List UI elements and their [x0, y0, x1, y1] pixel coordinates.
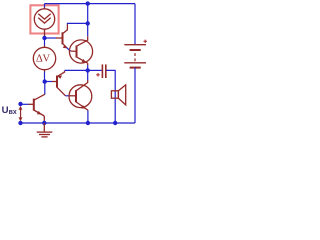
- svg-text:вх: вх: [9, 109, 17, 116]
- wire: battery bottom lead: [134, 68, 136, 123]
- wire: dV source to node B: [44, 72, 46, 82]
- wire: bottom rail: [21, 122, 136, 124]
- wire: node B to VT3 base: [45, 81, 53, 83]
- VT4 emitter arrow: [81, 105, 86, 109]
- VT3 emitter arrow (PNP, pointing into bar): [57, 75, 62, 78]
- node A (current source / dV / VT1 base junction): [42, 36, 46, 40]
- VT5 emitter arrow: [37, 111, 42, 115]
- transistor VT5 (NPN input, bottom left): [29, 94, 45, 121]
- wire: VT3 collector to VT4 base: [66, 95, 70, 97]
- wire: current source to node A: [44, 36, 46, 38]
- speaker BA1: [111, 85, 125, 105]
- current source G1 (circle with double chevron): [34, 7, 54, 36]
- selection highlight box around current source: [30, 5, 58, 33]
- wire: node B down to VT5 collector: [44, 82, 46, 95]
- input voltage double arrow: [19, 106, 23, 121]
- node: VT4 emitter / bottom rail junction: [86, 121, 90, 125]
- battery GB1 (two cells with dashes): [124, 45, 146, 68]
- node: speaker / bottom rail junction: [113, 121, 117, 125]
- capacitor C1 (electrolytic): [102, 64, 105, 78]
- wire: VT1 emitter to VT2 base: [67, 48, 71, 52]
- transistor VT3 (PNP driver, lower): [52, 71, 66, 96]
- wire: top rail: [45, 3, 136, 5]
- node B (dV / VT3 base / VT5 collector junction): [43, 79, 47, 83]
- ground: [37, 123, 53, 137]
- node: output (emitters/cap junction): [86, 68, 90, 72]
- VT1 emitter arrow: [63, 45, 68, 49]
- node: top rail junction: [86, 1, 90, 5]
- label: capacitor plus mark: [96, 73, 100, 77]
- wire: output node down to VT4 collector: [87, 70, 89, 80]
- svg-text:U: U: [2, 105, 9, 116]
- node: input terminal bottom (rail end): [18, 121, 22, 125]
- voltage source dV: [33, 46, 55, 72]
- wire: input to VT5 base: [21, 103, 29, 105]
- label: battery plus mark: [144, 40, 148, 43]
- transistor VT4 (NPN output, lower, circled): [69, 80, 92, 110]
- wire: VT3 emitter to output node: [65, 69, 88, 71]
- svg-text:ΔV: ΔV: [36, 53, 50, 64]
- wire: node A to VT1 base: [45, 37, 57, 39]
- node: input terminal top: [18, 102, 22, 106]
- wire: top rail down to VT2 collector: [87, 4, 89, 37]
- wire: VT4 emitter down to bottom rail: [87, 110, 89, 123]
- wire: current source top stub to top rail: [44, 4, 46, 8]
- wire: VT5 emitter to bottom rail: [43, 121, 45, 123]
- wire: VT1 collector up and over to VT2 collector line: [67, 23, 87, 24]
- transistor VT1 (NPN driver, top): [56, 24, 76, 51]
- wire: VT2 emitter down to output node: [87, 65, 89, 70]
- wire: capacitor to speaker column: [106, 70, 115, 123]
- VT2 emitter arrow: [82, 59, 87, 63]
- transistor VT2 (NPN output, upper, circled): [69, 36, 92, 65]
- wire: node A down to dV source: [44, 38, 46, 46]
- node: VT1/VT2 collector junction: [86, 21, 90, 25]
- wire: battery top lead: [134, 4, 136, 45]
- wire: output node to capacitor: [88, 69, 102, 71]
- node: ground / rail junction: [42, 121, 46, 125]
